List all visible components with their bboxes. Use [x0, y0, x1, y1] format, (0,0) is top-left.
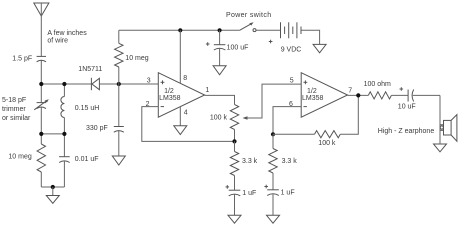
label 5-18 pF trimmer or similar: [2, 97, 31, 122]
op-amp U1A: [158, 73, 204, 118]
plus sign (1 uF left): [226, 185, 230, 189]
svg-text:100 uF: 100 uF: [227, 44, 249, 51]
resistor 100 ohm: [368, 92, 408, 99]
diode 1N5711: [91, 78, 158, 90]
svg-text:0.15 uH: 0.15 uH: [75, 105, 100, 112]
antenna: [34, 3, 49, 56]
node: tank ground junction: [51, 185, 55, 189]
wire: V+ top rail: [119, 29, 240, 31]
svg-text:9 VDC: 9 VDC: [281, 47, 302, 54]
svg-text:330 pF: 330 pF: [86, 125, 108, 132]
capacitor 100 uF: [214, 30, 226, 66]
trimmer capacitor 5-18 pF: [34, 84, 49, 134]
svg-text:1N5711: 1N5711: [78, 66, 102, 73]
battery 9 VDC: [281, 22, 302, 38]
pin 8 wire: [179, 30, 181, 83]
ground (330 pF): [112, 156, 125, 165]
svg-text:1/2: 1/2: [307, 88, 317, 95]
capacitor 10 uF: [408, 90, 440, 102]
resistor 3.3 k (left): [230, 141, 238, 190]
capacitor 1 uF (left): [229, 190, 241, 215]
op-amp U1B: [301, 73, 347, 118]
earphone (speaker): [440, 115, 457, 142]
svg-text:1/2: 1/2: [164, 88, 174, 95]
wire: tank bottom rail to ground: [41, 186, 64, 188]
svg-text:High - Z earphone: High - Z earphone: [378, 128, 435, 135]
svg-text:LM358: LM358: [159, 95, 181, 102]
svg-text:1 uF: 1 uF: [242, 190, 256, 197]
ground (tank): [46, 187, 59, 203]
capacitor 1 uF (right): [267, 190, 279, 216]
svg-text:or similar: or similar: [2, 115, 31, 122]
resistor 3.3 k (right): [269, 134, 277, 190]
node: pin 6 junction: [271, 132, 275, 136]
pin 1 output wire: [205, 95, 235, 104]
svg-text:10 meg: 10 meg: [125, 55, 148, 62]
svg-text:3: 3: [147, 77, 151, 84]
capacitor 0.01 uF: [59, 134, 70, 187]
svg-text:3.3 k: 3.3 k: [282, 158, 298, 165]
svg-text:0.01 uF: 0.01 uF: [75, 156, 99, 163]
svg-text:100 k: 100 k: [318, 140, 336, 147]
svg-text:of wire: of wire: [47, 37, 68, 44]
svg-text:1.5 pF: 1.5 pF: [12, 56, 32, 63]
node A junction dots on rail1: [39, 82, 43, 86]
wire: rail top of tank (node A): [41, 83, 91, 85]
wire: battery to ground: [301, 30, 320, 44]
svg-text:100 ohm: 100 ohm: [364, 81, 391, 88]
plus sign (battery): [269, 40, 273, 44]
node: pin8 tap: [178, 28, 182, 32]
capacitor 330 pF: [114, 84, 124, 156]
node: output junction: [356, 93, 360, 97]
ground (op-amp U1A pin 4): [174, 126, 187, 135]
svg-text:3.3 k: 3.3 k: [242, 158, 258, 165]
resistor 10 meg (lower left): [37, 134, 45, 187]
pin 4 wire: [179, 107, 181, 126]
svg-text:7: 7: [348, 87, 352, 94]
potentiometer 100k: [230, 84, 301, 141]
ground (1 uF right): [267, 215, 280, 223]
plus sign (10 uF): [400, 87, 404, 91]
resistor 100k (feedback): [273, 95, 358, 137]
svg-text:A few inches: A few inches: [47, 30, 87, 37]
svg-text:trimmer: trimmer: [2, 106, 26, 113]
svg-text:10 meg: 10 meg: [8, 153, 31, 160]
svg-text:4: 4: [184, 110, 188, 117]
node dots on rail2: [39, 132, 43, 136]
power switch: [240, 22, 281, 31]
svg-text:10 uF: 10 uF: [398, 103, 416, 110]
svg-text:Power switch: Power switch: [226, 12, 271, 19]
ground (1 uF left): [228, 215, 241, 223]
label: A few inches of wire: [47, 30, 87, 44]
wire: rail2 tank bottom: [41, 133, 64, 135]
inductor 0.15 uH: [61, 84, 64, 134]
node: pot bottom junction: [232, 139, 236, 143]
svg-text:1: 1: [205, 87, 209, 94]
plus sign (100 uF): [206, 42, 210, 46]
svg-text:8: 8: [183, 75, 187, 82]
wire: to earphone: [439, 95, 441, 144]
svg-text:5-18 pF: 5-18 pF: [2, 97, 26, 104]
pin 6 wire: [273, 107, 301, 135]
node: 100uF tap: [218, 28, 222, 32]
svg-text:5: 5: [290, 78, 294, 85]
ground (earphone): [434, 144, 447, 152]
pin 2 wire + feedback loop: [142, 107, 235, 142]
plus sign (1 uF right): [264, 185, 268, 189]
svg-text:1 uF: 1 uF: [281, 189, 295, 196]
ground (battery): [313, 44, 326, 52]
svg-text:LM358: LM358: [302, 95, 324, 102]
resistor 10 meg (upper): [115, 30, 123, 84]
capacitor 1.5 pF: [37, 56, 46, 84]
ground (100 uF): [213, 66, 226, 75]
pin 7 output wire: [348, 94, 369, 96]
svg-text:100 k: 100 k: [210, 115, 228, 122]
